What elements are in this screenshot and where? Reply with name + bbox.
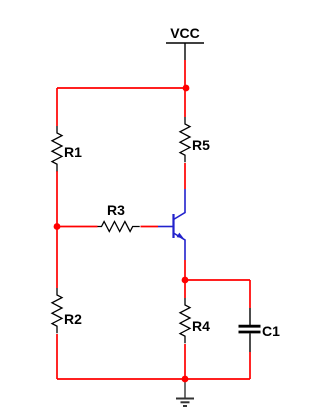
svg-text:R3: R3 [107,202,125,218]
svg-text:VCC: VCC [170,25,200,41]
resistor R2 [52,288,62,333]
resistor R1 [52,126,62,171]
wire base node to R3 [57,226,98,228]
svg-text:C1: C1 [262,323,280,339]
wire VCC to top node [184,60,186,88]
svg-text:R1: R1 [64,144,82,160]
node top junction [183,85,190,92]
ground [176,379,194,406]
svg-text:R4: R4 [192,318,210,334]
wire left rail lower segment [56,334,58,379]
wire left rail middle segment [56,171,58,288]
transistor Q1 [158,189,185,260]
wire emitter node to C1 [185,279,250,281]
svg-text:R5: R5 [192,137,210,153]
wire top horizontal [57,87,186,89]
resistor R4 [180,298,190,343]
wire C1 top segment [249,280,251,308]
transistor emitter arrow [177,233,184,239]
wire R5 to collector [184,163,186,189]
wire emitter to R4 node [184,260,186,298]
svg-text:R2: R2 [64,311,82,327]
capacitor C1 [239,308,261,352]
node emitter junction [182,277,189,284]
wire left rail upper segment [56,88,58,126]
wire C1 bottom segment [249,352,251,379]
resistor R5 [180,117,190,162]
resistor R3 [98,222,140,232]
node base junction [54,223,61,230]
power symbol VCC [166,43,204,60]
wire R3 to base [141,226,159,228]
wire top node to R5 [184,88,186,117]
node ground junction [182,376,189,383]
wire R4 to bottom [184,344,186,379]
wire bottom horizontal [57,378,250,380]
